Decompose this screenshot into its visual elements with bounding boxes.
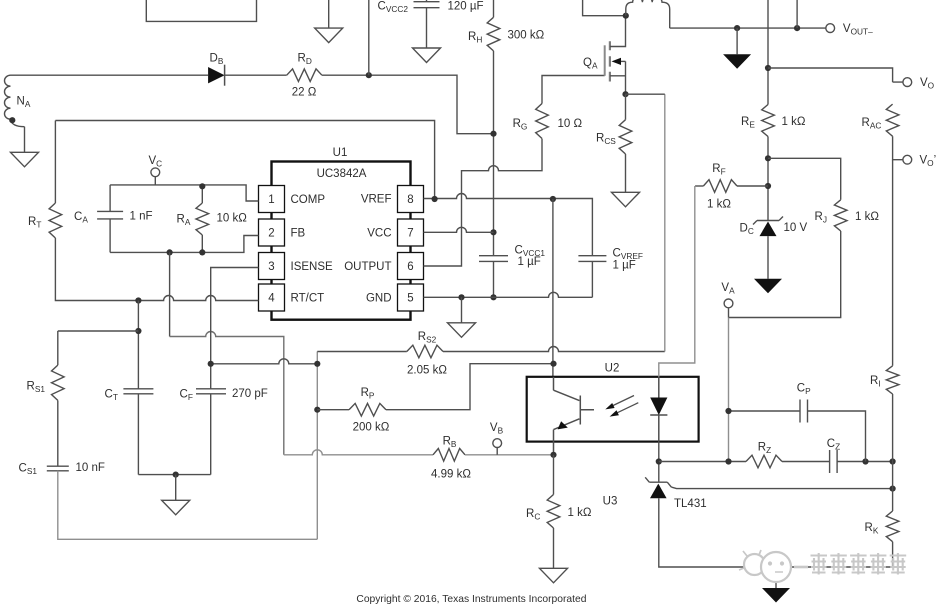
wire secondary return rail	[670, 27, 826, 29]
ground (RCS)	[612, 192, 640, 207]
wire RZ to CZ	[782, 461, 830, 463]
svg-text:2.05 kΩ: 2.05 kΩ	[407, 365, 447, 377]
junction QA source node	[622, 91, 628, 97]
resistor RC	[547, 455, 560, 569]
wire RT top segment	[54, 121, 56, 204]
transistor U2 phototransistor	[554, 377, 595, 455]
resistor RAC	[886, 104, 899, 136]
opto light arrows	[605, 396, 638, 417]
wire FB divider drop	[169, 252, 171, 336]
resistor RZ	[746, 455, 782, 468]
resistor RS1	[52, 331, 65, 400]
junction RH / startup rail	[490, 131, 496, 137]
transistor QA body arrow	[612, 58, 626, 65]
svg-text:1: 1	[268, 194, 274, 206]
junction CT - RS1 wire	[135, 328, 141, 334]
wire DB cathode to RD	[225, 74, 287, 76]
inductor NA (aux winding)	[5, 75, 25, 127]
wire VO branch	[768, 68, 903, 82]
junction gnd rail CVCC1	[490, 294, 496, 300]
wire VOUT- drop line	[796, 0, 798, 28]
wire feedback node link	[659, 461, 746, 463]
junction RT/CT line - CT	[135, 297, 141, 303]
junction RA bottom	[199, 249, 205, 255]
svg-text:5: 5	[407, 293, 413, 305]
wire RS2 left	[317, 351, 407, 353]
junction VREF - opto collector	[550, 196, 556, 202]
capacitor CVCC1	[479, 256, 508, 262]
svg-text:UC3842A: UC3842A	[317, 168, 367, 180]
watermark logo + text	[739, 550, 906, 582]
junction LED cathode node	[656, 458, 662, 464]
wire NA to ground	[24, 127, 26, 153]
wire IC gnd stub	[461, 297, 463, 323]
pin 3 box U1	[259, 253, 285, 280]
wire CP branch	[729, 410, 801, 412]
wire RJ branch top	[768, 158, 841, 200]
wire CZ right	[837, 461, 893, 463]
svg-text:TL431: TL431	[674, 498, 707, 510]
wire comp net top	[110, 185, 258, 201]
ground (NA)	[11, 152, 39, 167]
resistor RA	[196, 186, 209, 252]
wire LED anode feed	[659, 186, 695, 377]
svg-text:U3: U3	[603, 496, 618, 508]
wire CS1 to bottom loop	[58, 471, 318, 540]
svg-text:ISENSE: ISENSE	[291, 261, 334, 273]
wire CP right drop	[808, 411, 866, 462]
capacitor CA	[97, 185, 123, 253]
resistor RF	[703, 180, 737, 193]
terminal VO'	[903, 155, 912, 164]
capacitor CT	[123, 301, 153, 475]
junction VO branch	[765, 65, 771, 71]
wire ISENSE pin to CF line	[211, 268, 259, 389]
winding polarity dot NA	[9, 117, 15, 123]
junction on startup rail	[366, 72, 372, 78]
pin 2 box U1	[259, 219, 285, 246]
transistor QA channel bar	[609, 41, 611, 81]
ground (RC)	[540, 568, 568, 583]
junction VCC pin line	[490, 229, 496, 235]
wire QA source	[610, 61, 626, 94]
svg-text:3: 3	[268, 261, 274, 273]
wire top-center ground stub	[328, 0, 330, 28]
junction ISENSE link right	[314, 361, 320, 367]
resistor RE	[762, 105, 775, 137]
pin 8 box U1	[398, 186, 424, 213]
resistor RI	[886, 366, 899, 394]
svg-text:10 V: 10 V	[784, 222, 808, 234]
wire startup supply rail (top)	[11, 74, 209, 76]
ground (CT/CF)	[162, 500, 190, 515]
capacitor CVCC2	[414, 0, 440, 48]
svg-text:270 pF: 270 pF	[232, 388, 268, 400]
wire RE rail from top	[767, 0, 769, 105]
resistor RD	[287, 69, 322, 82]
svg-text:22 Ω: 22 Ω	[292, 87, 317, 99]
terminal VC	[151, 168, 160, 185]
svg-text:4: 4	[268, 293, 275, 305]
svg-text:VREF: VREF	[361, 194, 392, 206]
svg-text:U2: U2	[605, 363, 620, 375]
pin 6 box U1	[398, 253, 424, 280]
junction VA - CP	[725, 408, 731, 414]
zener DC	[753, 217, 783, 237]
ground (IC GND)	[448, 323, 476, 338]
svg-text:10 kΩ: 10 kΩ	[217, 213, 248, 225]
wire CF bottom	[210, 394, 212, 475]
wire RH top stub	[493, 0, 495, 17]
svg-text:1 kΩ: 1 kΩ	[568, 507, 592, 519]
wire RS2 right to CS sense	[443, 347, 665, 352]
power return arrow (bottom)	[762, 588, 790, 603]
wire RB feed	[284, 450, 433, 455]
wire RB right to opto emitter	[465, 454, 554, 456]
svg-text:7: 7	[407, 228, 413, 240]
terminal VB	[493, 439, 502, 455]
wire VA down to feedback	[728, 318, 730, 462]
wire RT to RT/CT pin	[55, 238, 258, 301]
junction ISENSE link left	[208, 361, 214, 367]
wire RG top to gate	[542, 76, 605, 104]
terminal VA	[724, 299, 733, 318]
junction divider mid	[890, 458, 896, 464]
wire comp net bottom to FB pin	[110, 236, 258, 253]
wire RS1 top link	[58, 330, 139, 332]
svg-text:1 µF: 1 µF	[613, 260, 636, 272]
junction RF node	[765, 183, 771, 189]
wire RP right to VREF node	[386, 364, 554, 410]
junction REF - divider	[890, 486, 896, 492]
wire CVREF bottom	[591, 261, 593, 297]
resistor RP	[349, 403, 386, 416]
terminal VOUT-	[826, 24, 835, 33]
junction gnd stub	[458, 294, 464, 300]
svg-text:200 kΩ: 200 kΩ	[353, 422, 390, 434]
wire VREF pin 8 line	[424, 194, 593, 256]
wire timing gnd stub	[175, 475, 177, 501]
wire FB net to RB feed	[170, 332, 284, 455]
capacitor CS1	[47, 400, 69, 470]
wire CVCC1 to gnd rail	[493, 261, 495, 297]
svg-text:4.99 kΩ: 4.99 kΩ	[431, 469, 471, 481]
wire VCC pin 7 line	[424, 227, 494, 232]
svg-text:10 nF: 10 nF	[76, 462, 105, 474]
wire RK bottom	[892, 542, 894, 567]
junction return rail right	[794, 25, 800, 31]
resistor RT	[49, 203, 62, 238]
svg-text:300 kΩ: 300 kΩ	[508, 30, 545, 42]
svg-text:8: 8	[407, 194, 413, 206]
svg-text:1 kΩ: 1 kΩ	[855, 211, 879, 223]
wire primary left lead	[583, 0, 626, 16]
pin 4 box U1	[259, 284, 285, 311]
capacitor CZ	[830, 450, 838, 473]
wire DC anode stub	[767, 236, 769, 279]
wire TL431 REF line	[671, 487, 892, 489]
wire frame aux to VREF line	[55, 121, 434, 200]
ground (CVCC2)	[413, 48, 441, 63]
resistor RS2	[407, 345, 443, 358]
pin 7 box U1	[398, 219, 424, 246]
optocoupler U2 box	[527, 377, 699, 442]
junction opto emitter - RB	[550, 452, 556, 458]
svg-text:FB: FB	[291, 228, 306, 240]
svg-text:1 µF: 1 µF	[518, 256, 541, 268]
svg-text:1 nF: 1 nF	[130, 211, 153, 223]
svg-text:6: 6	[407, 261, 413, 273]
wire RE bottom	[767, 137, 769, 221]
diode U2 LED	[650, 377, 667, 442]
wire OUTPUT pin 6 to gate drive	[424, 139, 543, 266]
wire gnd arrow stub	[736, 28, 738, 54]
shunt regulator U3 TL431	[645, 477, 671, 498]
resistor RH	[487, 17, 500, 51]
svg-text:RT/CT: RT/CT	[291, 293, 325, 305]
resistor RJ	[834, 200, 847, 231]
diode DB	[208, 65, 225, 86]
svg-text:1 kΩ: 1 kΩ	[707, 199, 731, 211]
svg-text:1 kΩ: 1 kΩ	[782, 116, 806, 128]
svg-text:10 Ω: 10 Ω	[558, 118, 583, 130]
svg-text:OUTPUT: OUTPUT	[344, 261, 391, 273]
resistor RK	[886, 511, 899, 542]
wire RAC to VO'	[893, 136, 903, 159]
resistor RB	[433, 449, 465, 462]
transformer primary winding (cut at top)	[626, 0, 670, 28]
wire source to sense vertical	[626, 93, 665, 95]
junction CP - CZ	[862, 458, 868, 464]
junction VA - RZ node	[725, 458, 731, 464]
svg-text:GND: GND	[366, 293, 392, 305]
pin 5 box U1	[398, 284, 424, 311]
resistor RCS	[619, 94, 632, 192]
junction RA top	[199, 183, 205, 189]
svg-text:VCC: VCC	[367, 228, 391, 240]
junction timing gnd	[173, 472, 179, 478]
wire RI to nodes	[892, 394, 894, 511]
wire bottom gnd stub	[775, 567, 777, 588]
wire QA drain	[610, 16, 626, 47]
junction return rail gnd arrow	[734, 25, 740, 31]
wire RH to VCC node	[493, 51, 495, 256]
capacitor CP	[800, 400, 808, 423]
capacitor CF	[196, 389, 226, 394]
wire ISENSE link	[211, 359, 318, 364]
wire CT-CF bottom link	[138, 474, 210, 476]
pin 1 box U1	[259, 186, 285, 213]
wire startup rail to top edge	[368, 0, 370, 75]
wire RJ bottom to VA	[729, 231, 841, 318]
wire sense node vertical	[316, 352, 318, 540]
junction FB net - divider	[167, 249, 173, 255]
wire RP left stub	[317, 409, 349, 411]
junction VREF - frame	[432, 196, 438, 202]
wire sense vertical to RCS	[664, 94, 666, 351]
wire RD to VCC rail corner	[322, 75, 494, 134]
svg-text:Copyright © 2016, Texas Instru: Copyright © 2016, Texas Instruments Inco…	[356, 594, 586, 605]
svg-text:COMP: COMP	[291, 194, 326, 206]
junction RP - collector node	[550, 361, 556, 367]
wire RF to RE node	[737, 185, 768, 187]
junction primary drain node	[623, 13, 629, 19]
op-amp U1 body (UC3842A)	[272, 162, 411, 320]
power return arrow (DC)	[754, 279, 782, 294]
wire GND pin 5 line	[424, 292, 593, 297]
svg-text:2: 2	[268, 228, 274, 240]
svg-text:U1: U1	[333, 147, 348, 159]
power return arrow (filled)	[723, 54, 751, 68]
capacitor CVREF	[578, 256, 606, 262]
ground (top center)	[315, 28, 343, 42]
wire LED cathode to TL431	[658, 442, 660, 483]
junction RP left	[314, 407, 320, 413]
junction RJ branch	[765, 155, 771, 161]
svg-text:120 µF: 120 µF	[448, 1, 484, 13]
wire RF left feed	[695, 185, 703, 187]
terminal VO	[903, 78, 912, 87]
wire RAC down long	[892, 160, 894, 366]
wire TL431 anode down	[659, 498, 893, 567]
wire opto collector from VREF	[552, 199, 554, 377]
resistor RG	[536, 104, 549, 139]
transistor QA gate bar	[604, 45, 606, 76]
node box (cut off top-left)	[146, 0, 256, 21]
